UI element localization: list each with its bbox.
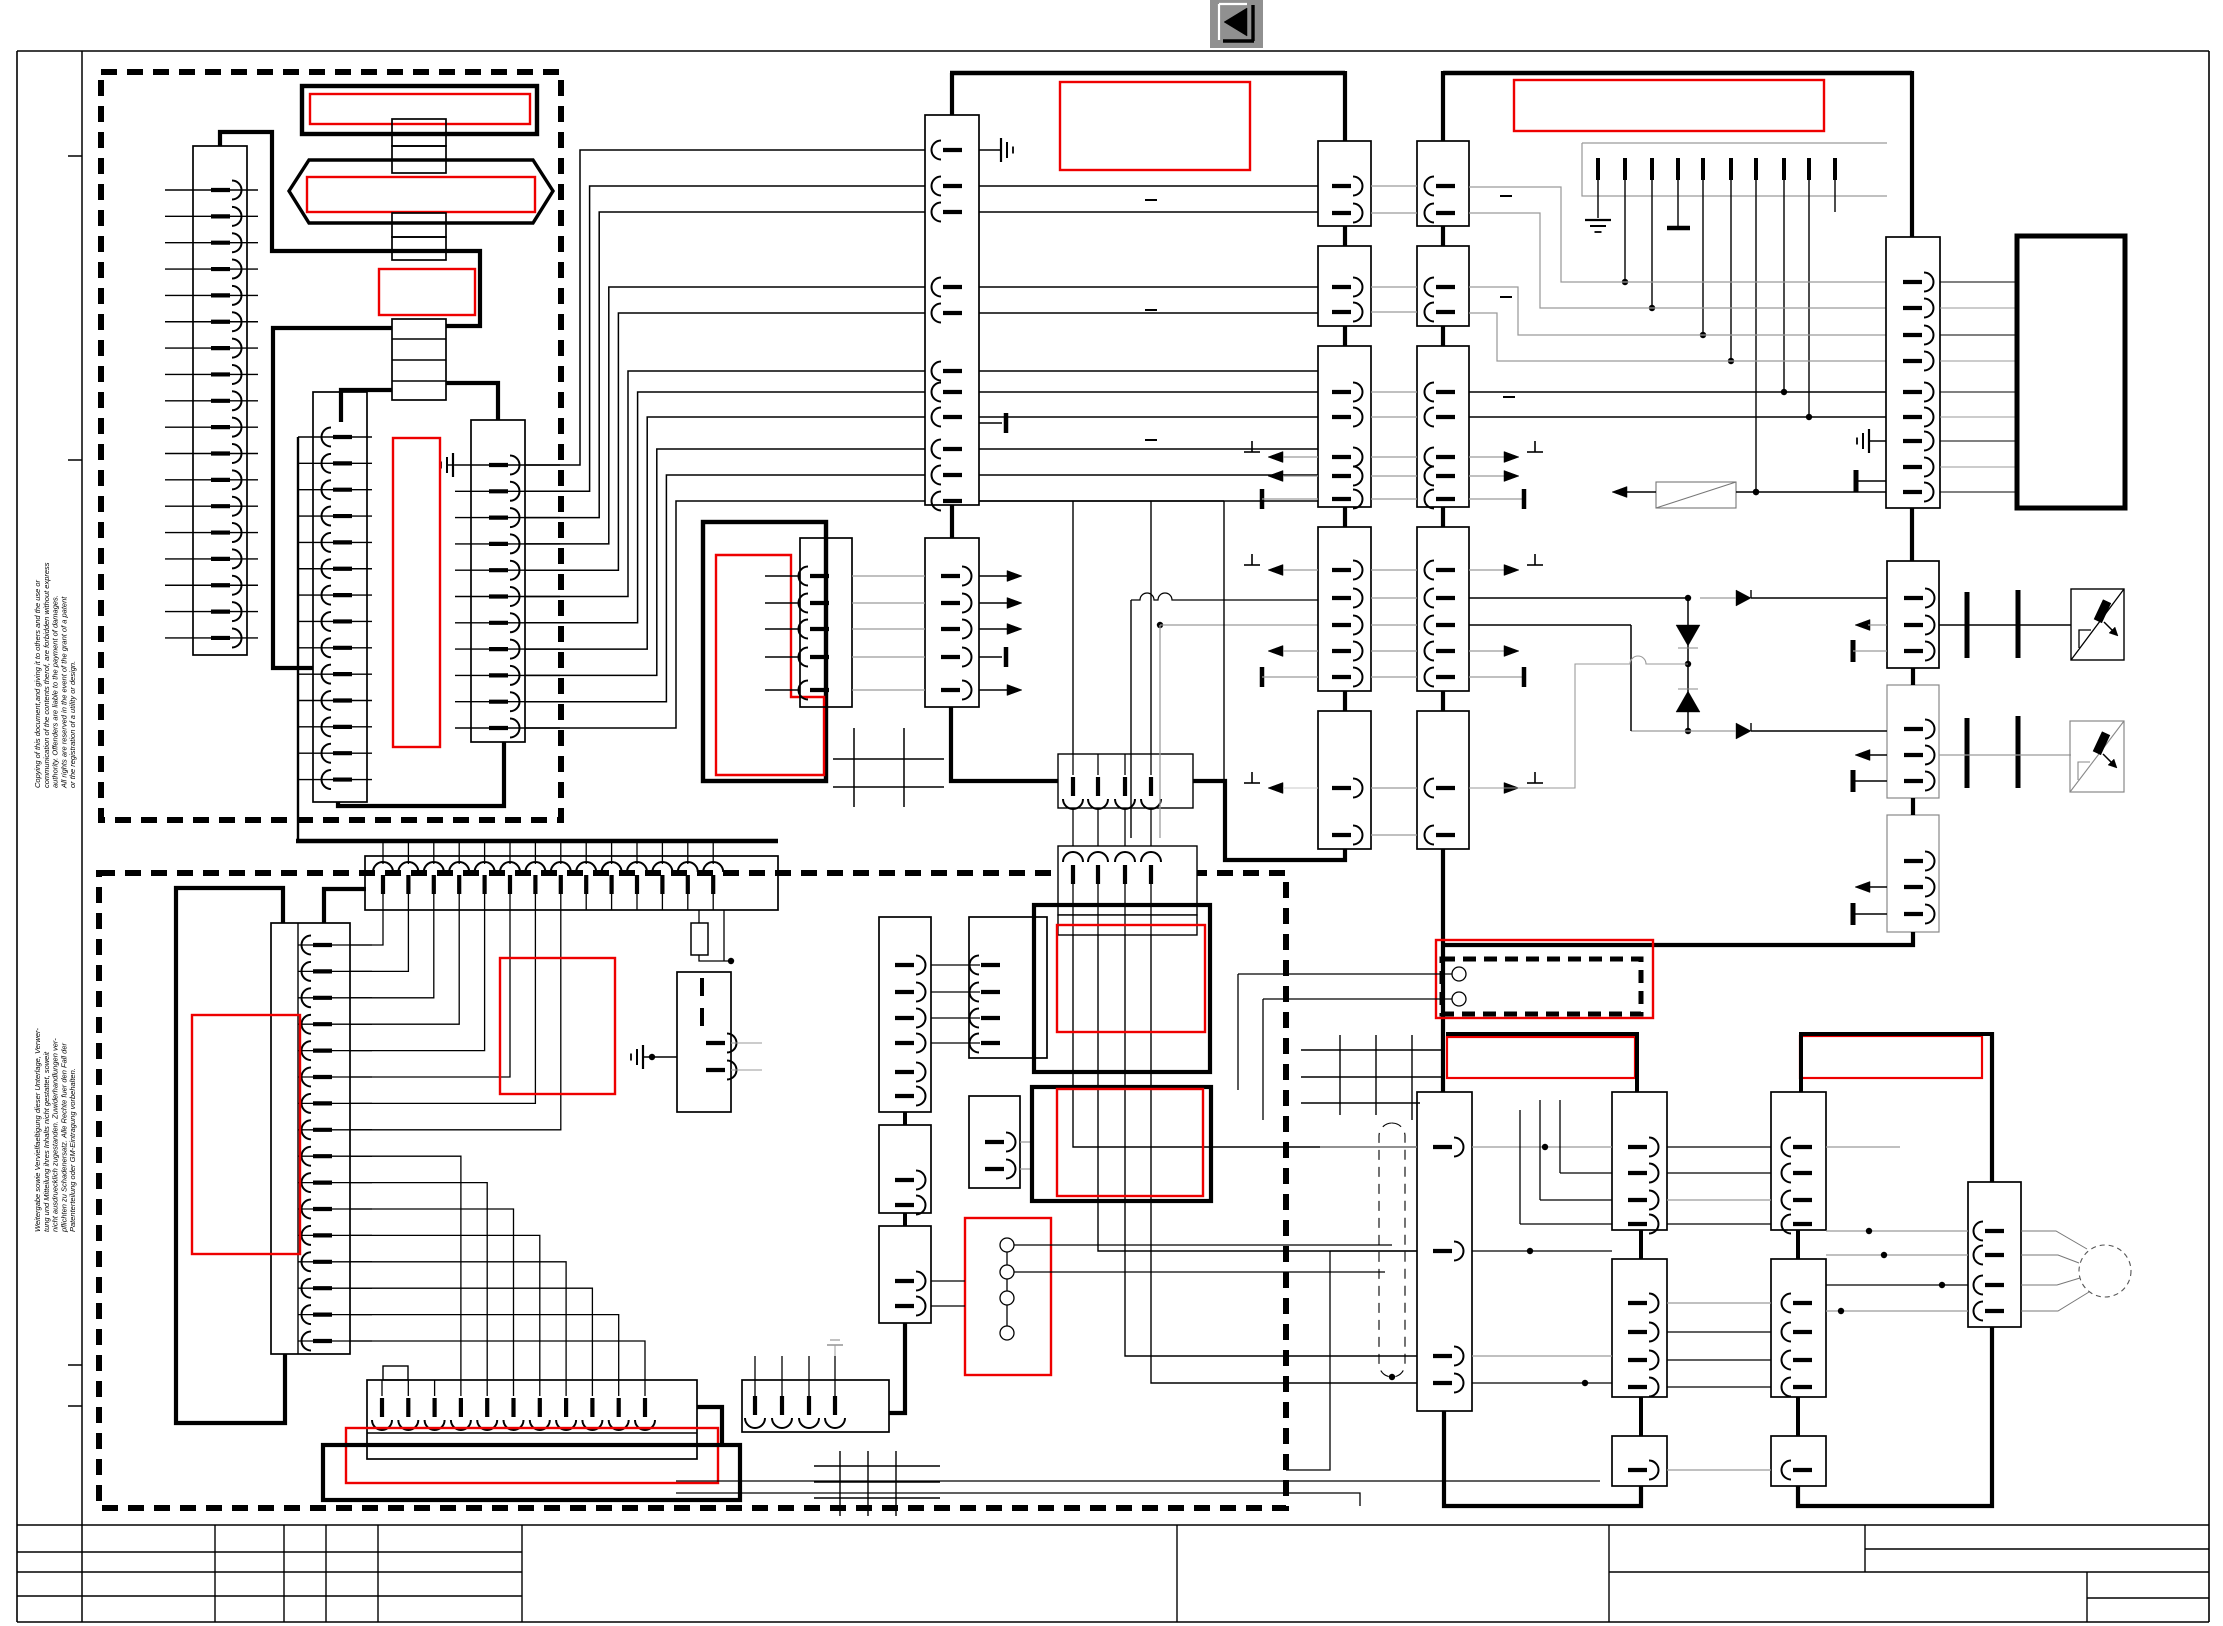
cable shield symbol (1379, 1123, 1405, 1380)
wire diode vertical (1687, 598, 1689, 731)
wires X20a to X21 (931, 965, 980, 1043)
svg-text:authority. Offenders are liabl: authority. Offenders are liable to the p… (51, 595, 60, 788)
arrow/terminator row 457 (1244, 441, 1543, 463)
crossing grid symbol (center) (1301, 1035, 1445, 1120)
matrix wires rows 2-4 (1520, 1100, 1771, 1224)
terminator bar at X7 (979, 413, 1006, 433)
diode V3 (right) with wire (1700, 590, 1887, 606)
bus wire (X4 to X5 top) (341, 390, 392, 422)
wires X22 to K14 (1020, 1142, 1034, 1169)
wire bundle X16 to X18 (350, 1156, 645, 1380)
wires col B to X14 (1469, 187, 1886, 417)
crossing grid symbol (upper) (833, 728, 944, 807)
connector X16 (16-pin) (271, 923, 372, 1354)
terminator at X15c (1853, 903, 1887, 925)
wire (gray) to X8 row (1157, 622, 1318, 838)
terminator bar under K8 (1667, 226, 1690, 231)
connector X15c (3-pin) (1887, 815, 1939, 932)
arrow row 651 (1268, 646, 1519, 657)
resistor R1 (691, 910, 734, 964)
bus wire (col B bottom to matrix) (1441, 849, 1445, 1092)
plug bars pair 2 (1939, 716, 2071, 788)
label box (red) K1 (310, 94, 530, 124)
connector X5 (14-pin) (298, 392, 372, 802)
bus stubs X26 (1796, 1230, 1800, 1436)
control unit A1 (thick box) (2017, 236, 2125, 508)
wire (col B to diode net) (1469, 625, 1631, 731)
connector stack X4 (392, 319, 446, 400)
junction dots diode net (1685, 595, 1691, 734)
label box (red) K10 wide (346, 1428, 718, 1483)
bus wire top-left horizontal (950, 71, 1345, 75)
bus wire (main horizontal) (296, 839, 778, 843)
connector X23 (4-pin bottom) (742, 1356, 889, 1432)
ground (earth gray) above X23 (827, 1340, 843, 1356)
matrix wires rows 5-8 (1472, 1248, 1771, 1387)
connector X1 (18-pin, left) (165, 146, 258, 655)
component frame K14 (thick) (1032, 1087, 1211, 1201)
bus stub X15a-X15b (1911, 668, 1915, 685)
bus wire (into X8 col A) (1343, 71, 1347, 141)
connector X7 (11-pin central) (925, 115, 979, 511)
bus wire (X20c bottom) (889, 1323, 905, 1413)
copyright notice english (rotated) (33, 562, 77, 789)
connector stack X3b (392, 237, 446, 260)
connector X12 (4-pin) (1058, 846, 1197, 935)
wires leaving bottom-left box (676, 1481, 1600, 1506)
bus wire (into X8 col B) (1441, 71, 1445, 141)
arrow at X15c (1855, 882, 1887, 893)
bus stub X15b-X15c (1911, 798, 1915, 815)
svg-text:communication of the contents: communication of the contents therof, ar… (42, 562, 51, 788)
wires X10 to X9 (852, 576, 925, 690)
connector X26c (1771, 1436, 1826, 1486)
label box (red) K2 (307, 177, 535, 212)
wires X7 to col A (979, 186, 1318, 501)
bus wire (X15c bottom across) (1443, 932, 1913, 945)
bus stub X20b-c (903, 1213, 907, 1226)
connector X24 (4-pin) (1417, 1092, 1472, 1411)
dashed enclosure box top-left (101, 72, 561, 820)
matrix feeder wires (1286, 1147, 1417, 1470)
label bracket (red) K17 (1800, 1034, 1992, 1092)
matrix wires row1 (1472, 1144, 1900, 1150)
connector stack X3a (392, 213, 446, 237)
switch block S1 (red box with contacts) (965, 1218, 1051, 1375)
connector X6 (11-pin) (455, 420, 560, 742)
ground (chassis) at X7 pin1 (979, 138, 1013, 162)
svg-text:or the registration of a utili: or the registration of a utility or desi… (68, 661, 77, 788)
svg-text:pflichten zu Schadenersatz. Al: pflichten zu Schadenersatz. Alle Rechte … (59, 1043, 68, 1233)
wires X14 to A1 (1940, 282, 2017, 492)
diode V1 (down) (1676, 625, 1700, 648)
title block grid (17, 1525, 2209, 1622)
connector X26a (1771, 1092, 1826, 1234)
connector X14 (9-pin right) (1886, 237, 1940, 508)
bus wire (X1 top to K2) (220, 132, 480, 326)
dashed enclosure box bottom (99, 873, 1286, 1508)
arrow/terminator row 570 (1244, 554, 1543, 576)
terminator at X15b (1853, 770, 1887, 792)
wire to diode row 598 (1469, 597, 1688, 599)
label box (red) K7 top right (1514, 80, 1824, 131)
pointed band K2 (289, 160, 553, 223)
wire (X7 pin to X11 area) (979, 501, 1224, 754)
connector X15b (3-pin) (1887, 685, 1939, 798)
component frame K5 (thick C-frame) (703, 522, 826, 781)
copyright notice german (rotated) (33, 1028, 77, 1233)
connector X8 column B segments (1417, 141, 1469, 849)
connector X18 (11-pin bottom row) (367, 1380, 697, 1459)
terminator row 499 (1262, 489, 1524, 509)
arrow outputs of X9 (979, 571, 1022, 696)
bus wire (X4 to X6 right) (446, 383, 498, 420)
bus wire (X26 bottom loop) (1798, 1327, 1992, 1506)
bus wire (X14 to X15) (1910, 508, 1914, 561)
connector X19 (small) (677, 972, 762, 1112)
connector X17 (14-pin top row) (365, 841, 778, 910)
connector X20c (2-pin) (879, 1226, 931, 1323)
wires X27 to M1 (2021, 1231, 2089, 1311)
bus stubs X25 (1639, 1230, 1643, 1436)
motor M1 (2079, 1245, 2131, 1297)
fuse F1 with arrow (1612, 482, 1886, 508)
component frame K1 (thick) (302, 86, 537, 134)
svg-text:tung und Mitteilung ihres Inha: tung und Mitteilung ihres Inhalts nicht … (42, 1051, 51, 1232)
component frame K13 (thick) (1034, 905, 1210, 1072)
solid state relay G1 (2071, 589, 2124, 660)
wires between X8 columns (1371, 186, 1417, 835)
wires X11 to X12 (1073, 808, 1151, 846)
bus wire (stub into X16 top) (324, 889, 366, 923)
connector X26b (1771, 1259, 1826, 1397)
bus stubs column A (1343, 226, 1347, 711)
label box (red) K15 with dashed inner (1238, 940, 1653, 1120)
label box (red) K9 tall-left (192, 1015, 300, 1254)
connector X10 (5-pin) (765, 538, 852, 707)
label box (red) K3 (379, 269, 475, 315)
arrow at X15a (1855, 620, 1887, 631)
connector X27 (4-pin motor) (1968, 1182, 2021, 1327)
terminator row 677 (1262, 667, 1524, 687)
back button icon (1210, 0, 1263, 48)
bus wire (X18 right) (697, 1407, 722, 1445)
junction dots K8 (1622, 279, 1812, 495)
svg-text:nicht ausdruecklich zugestande: nicht ausdruecklich zugestanden. Zuwider… (51, 1038, 60, 1232)
wire bundle X16 to X17 (350, 910, 561, 1130)
connector X25c (1612, 1436, 1667, 1486)
diode V2 (up) (1676, 689, 1700, 712)
wire (gray with hop) (1469, 656, 1688, 788)
terminator bar at X14 (1856, 470, 1886, 492)
wire trunk from X5 (297, 437, 299, 841)
wire with hops to X8 row (1131, 593, 1318, 838)
connector stack X2a (392, 119, 446, 146)
crossing grid symbol (bottom) (814, 1451, 940, 1516)
terminator at X15a (1853, 640, 1887, 662)
bus wire (X7 top) (950, 73, 954, 115)
bus stub X20a-b (903, 1112, 907, 1125)
bus stubs column B (1441, 226, 1445, 711)
wires from S1 (931, 1245, 1392, 1306)
svg-text:Patenterteilung oder GM-Eintra: Patenterteilung oder GM-Eintragung vorbe… (68, 1068, 77, 1232)
diode V4 (right) with wire (1631, 723, 1887, 739)
label box (red) K4 tall (393, 438, 440, 747)
pins X8 column A (1332, 177, 1363, 845)
connector stack X2b (392, 146, 446, 173)
connector X25a (1612, 1092, 1667, 1234)
plug bars pair 1 (1939, 590, 2071, 658)
connector X11 (4-pin) (1058, 754, 1193, 809)
connector X21 (4-pin) (969, 917, 1047, 1058)
bus wire (X24 bottom loop) (1444, 1411, 1641, 1506)
label box (red) K14 (1057, 1089, 1203, 1196)
label box (red) K12 (500, 958, 615, 1094)
wire labels (dashes) (1145, 196, 1515, 440)
jumper on X18 (383, 1366, 408, 1380)
connector X20a (6-pin) (879, 917, 931, 1112)
bus wire (X5 bottom to X6 bottom) (338, 742, 504, 806)
ground (chassis) at X19 (631, 1045, 677, 1069)
bus wire (left big hook) (176, 888, 285, 1423)
bus wire (X9 to X11) (951, 707, 1058, 781)
ground (chassis) at X6 pin1 (441, 453, 455, 477)
svg-text:Copying of this document,and g: Copying of this document,and giving it t… (33, 579, 42, 788)
connector X8 column A segments (1318, 141, 1371, 849)
connector X9 (5-pin with arrows) (925, 538, 979, 707)
component frame K11 (thick) (323, 1445, 740, 1500)
arrow/terminator row 788 (1244, 772, 1543, 794)
frame zone tick marks (68, 156, 82, 1406)
matrix wires row9 (1667, 1469, 1771, 1471)
connector X15a (3-pin) (1887, 561, 1939, 668)
ground (earth) under K8 (1585, 219, 1611, 221)
label bracket (red) K16 (1446, 1034, 1637, 1092)
bus wire (into X14 right col) (1910, 71, 1914, 237)
bus wire (X7 to X9) (950, 505, 954, 538)
matrix wires to X27 (1826, 1228, 1968, 1314)
solid state relay G2 (2070, 721, 2124, 792)
terminal strip drop wires (1598, 180, 1835, 492)
label box (red) K5 (716, 555, 824, 775)
terminal strip K8 (battery feed) (1582, 143, 1887, 196)
bus wire (col A bottom) (1193, 501, 1345, 860)
connector X20b (2-pin) (879, 1125, 931, 1215)
bus wire (X4 to X5) (273, 328, 392, 668)
svg-text:Weitergabe sowie Vervielfaelti: Weitergabe sowie Vervielfaeltigung diese… (33, 1028, 42, 1232)
wire bundle X6 to X7 (525, 150, 925, 728)
bus wire (K17 to X27) (1990, 1032, 1994, 1182)
arrow at X15b (1855, 750, 1887, 761)
ground (chassis) at X14 (1857, 429, 1886, 453)
label box (red) K13 (1057, 925, 1205, 1032)
bus wire top-right horizontal (1443, 71, 1912, 75)
connector X22 (2-pin) (969, 1096, 1020, 1188)
svg-text:All rights are reserved in the: All rights are reserved in the event of … (59, 596, 68, 789)
connector X25b (1612, 1259, 1667, 1397)
pins X8 column B (1425, 177, 1456, 845)
wires X12 to lower right matrix (1073, 935, 1417, 1383)
terminator bar at X9 pin4 (979, 647, 1006, 667)
label box (red) K6 top (1060, 82, 1250, 170)
arrow row 476 (1268, 471, 1519, 482)
